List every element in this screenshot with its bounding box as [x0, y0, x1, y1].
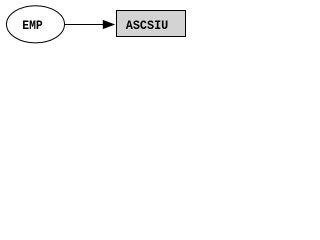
svg-text:ASCSIU: ASCSIU [126, 19, 169, 33]
wire: edge from EMP to ASCSIU [65, 24, 105, 26]
node ASCSIU (box) [117, 11, 186, 37]
svg-text:EMP: EMP [22, 19, 43, 33]
diagram: entity EMP -> module ASCSIU [0, 0, 192, 48]
arrowhead [103, 20, 115, 29]
node EMP (ellipse) [7, 6, 65, 43]
background [0, 0, 192, 48]
